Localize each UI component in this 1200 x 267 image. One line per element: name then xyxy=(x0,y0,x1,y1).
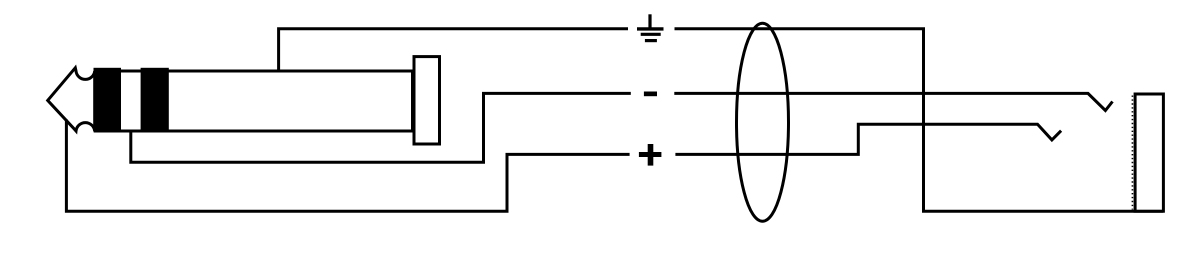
wire: ground symbol to socket sleeve xyxy=(675,29,1164,212)
wire: minus to bare end (hook) xyxy=(674,93,1112,110)
ground symbol xyxy=(637,14,664,40)
wire: tip to plus xyxy=(66,120,629,212)
cable ellipse xyxy=(737,23,789,221)
plus label xyxy=(639,144,662,166)
plug J1 ring band 2 xyxy=(141,68,169,133)
wire: sleeve to ground symbol xyxy=(279,29,628,71)
plug J1 tip (arrowhead with groove notches) xyxy=(48,68,95,131)
plug J1 barrel (sleeve body) xyxy=(96,71,413,131)
plug J1 ring band 1 xyxy=(94,68,122,133)
wire: ring to minus xyxy=(131,93,631,162)
socket body xyxy=(1135,94,1163,211)
minus label xyxy=(644,92,657,97)
plug J1 collar xyxy=(414,57,440,144)
socket panel (dotted line) xyxy=(1131,96,1133,210)
wire: plus to bare end (hook) xyxy=(675,124,1061,154)
